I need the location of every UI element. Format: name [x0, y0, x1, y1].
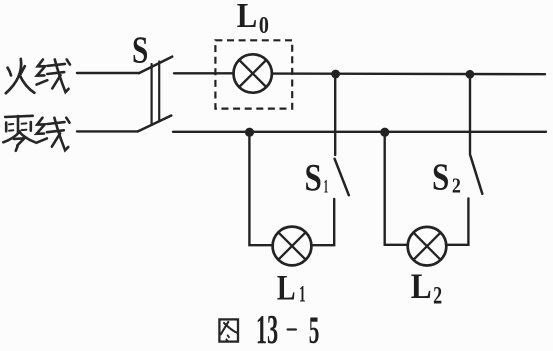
火: [6, 59, 21, 93]
label S1: [305, 156, 329, 199]
lamp L1: [273, 227, 312, 266]
label L0: [237, 0, 269, 39]
svg-text:L: L: [237, 0, 258, 35]
label L2: [411, 266, 442, 309]
svg-text:2: 2: [452, 174, 461, 198]
lamp L2: [408, 227, 447, 266]
caption text 13 - 5: [256, 307, 320, 351]
node junction dot top wire / S2 branch: [466, 70, 475, 79]
svg-text:S: S: [432, 157, 449, 199]
switch S linkage bar right: [158, 62, 160, 122]
svg-text:L: L: [277, 267, 296, 307]
wire live (top) from switch S to dashed box / lamp L0: [174, 72, 234, 74]
零 (rain radical): [5, 116, 33, 117]
线 of 零线: [36, 118, 69, 151]
svg-text:S: S: [132, 30, 148, 72]
wire from lamp L1 to switch S1 lower terminal: [311, 199, 334, 245]
wire switch S1 upper terminal up to live wire: [334, 74, 336, 155]
switch S1 blade: [335, 159, 349, 195]
图 box: [219, 319, 238, 341]
wire switch S2 upper terminal up to live wire: [469, 74, 471, 154]
图 inner 冬: [221, 322, 229, 335]
wire branch L1: down from neutral, across to lamp L1: [249, 132, 272, 245]
switch S upper blade: [139, 57, 172, 74]
svg-text:0: 0: [259, 13, 269, 39]
label 火线 (live wire, hand-drawn glyphs): [6, 59, 35, 93]
switch S linkage bar left: [151, 64, 153, 125]
lamp L0: [234, 54, 272, 92]
wire live (top) left segment from 火线 label to switch S: [77, 72, 139, 74]
svg-text:1: 1: [324, 177, 329, 198]
线 of 火线: [37, 60, 70, 93]
node junction dot top wire / S1 branch: [331, 70, 340, 79]
svg-text:S: S: [305, 156, 322, 199]
svg-text:L: L: [411, 266, 432, 306]
零 (令 bottom): [3, 131, 20, 142]
node junction dot bottom wire / L1 branch: [245, 128, 254, 137]
svg-text:1: 1: [299, 282, 306, 307]
switch S2 blade: [470, 155, 482, 193]
svg-text:13: 13: [256, 307, 278, 351]
node junction dot bottom wire / L2 branch: [380, 128, 389, 137]
dashed box around lamp L0: [215, 40, 292, 108]
label S2: [432, 157, 461, 199]
wire neutral (bottom) left segment from 零线 label to switch S: [77, 130, 138, 132]
label 零线 (neutral wire, hand-drawn glyphs): [3, 116, 34, 151]
wire from lamp L2 to switch S2 lower terminal: [446, 199, 468, 245]
caption 图 13-5: [219, 319, 238, 341]
wire neutral (bottom) from switch S to right end: [173, 131, 546, 133]
wire branch L2: down from neutral, across to lamp L2: [385, 132, 408, 245]
switch S lower blade: [138, 116, 171, 132]
switch S (double-pole): [138, 57, 172, 132]
label L1: [277, 267, 306, 307]
svg-text:5: 5: [309, 309, 320, 351]
svg-text:2: 2: [433, 283, 442, 310]
wire live (top) from lamp L0 to right end: [272, 72, 545, 75]
